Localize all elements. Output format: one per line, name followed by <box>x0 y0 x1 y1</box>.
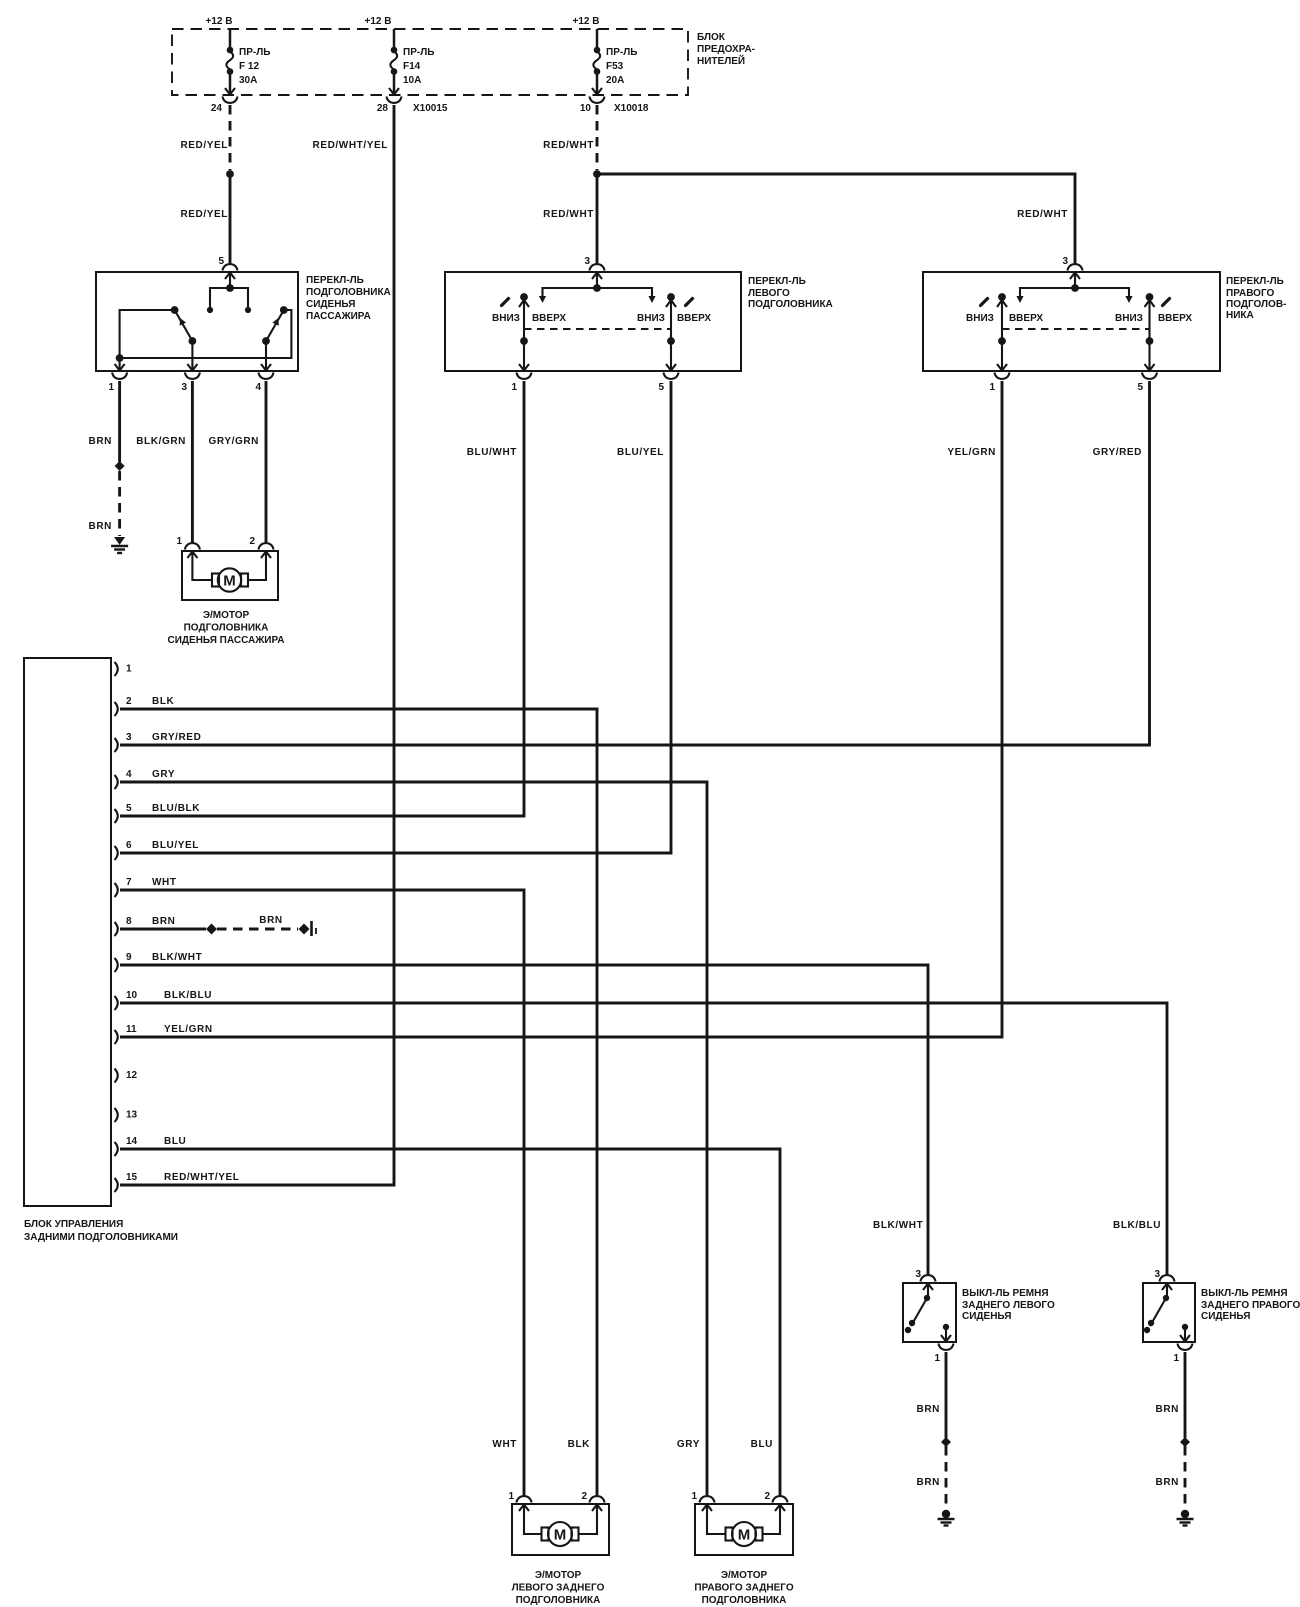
svg-text:ВНИЗ: ВНИЗ <box>966 313 994 324</box>
pin 1 of M1 <box>176 536 199 558</box>
svg-text:BLU/BLK: BLU/BLK <box>152 803 200 814</box>
svg-text:20A: 20A <box>606 75 624 86</box>
switch lever right of S1 <box>262 306 288 345</box>
svg-text:ЗАДНИМИ ПОДГОЛОВНИКАМИ: ЗАДНИМИ ПОДГОЛОВНИКАМИ <box>24 1232 178 1243</box>
svg-text:BLU: BLU <box>751 1439 773 1450</box>
svg-text:ПЕРЕКЛ-ЛЬ: ПЕРЕКЛ-ЛЬ <box>306 275 364 286</box>
svg-text:СИДЕНЬЯ ПАССАЖИРА: СИДЕНЬЯ ПАССАЖИРА <box>167 635 284 646</box>
svg-text:СИДЕНЬЯ: СИДЕНЬЯ <box>306 299 355 310</box>
wire WHT pin 7 to left rear motor pin 1 <box>120 890 524 1496</box>
svg-text:F53: F53 <box>606 61 624 72</box>
svg-text:X10015: X10015 <box>413 103 448 114</box>
svg-text:ПРАВОГО: ПРАВОГО <box>1226 288 1274 299</box>
svg-text:10: 10 <box>126 990 138 1001</box>
svg-text:ПАССАЖИРА: ПАССАЖИРА <box>306 311 371 322</box>
svg-text:30A: 30A <box>239 75 257 86</box>
pin 8 of control unit <box>115 916 176 936</box>
wire RED/YEL dashed from connector 24 <box>180 105 230 170</box>
contact ВНИЗ left of S3 <box>966 299 994 325</box>
svg-text:ЛЕВОГО: ЛЕВОГО <box>748 288 790 299</box>
switch pole right of S3 <box>1145 293 1155 371</box>
splice on right BRN <box>1180 1437 1190 1447</box>
svg-text:8: 8 <box>126 916 132 927</box>
fuse box БЛОК ПРЕДОХРАНИТЕЛЕЙ <box>172 29 755 95</box>
fixed contact to pin 1 of SW-R <box>1182 1324 1188 1340</box>
svg-text:GRY/RED: GRY/RED <box>1093 447 1142 458</box>
connector 10 X10018 <box>580 103 649 114</box>
pin 3 of S3 <box>1062 256 1082 279</box>
svg-text:RED/WHT/YEL: RED/WHT/YEL <box>164 1172 240 1183</box>
wire S2 feed split <box>539 274 656 303</box>
wire RED/WHT dashed from connector 10 <box>543 105 597 170</box>
wire BRN dashed to ground left <box>917 1446 946 1509</box>
splice on BRN wire <box>115 461 125 471</box>
svg-text:1: 1 <box>1173 1353 1179 1364</box>
splice junction on RED/YEL <box>226 170 234 178</box>
svg-text:ПОДГОЛОВ-: ПОДГОЛОВ- <box>1226 299 1286 310</box>
wire WHT label at left rear motor <box>492 1439 517 1450</box>
svg-text:ВВЕРХ: ВВЕРХ <box>677 313 711 324</box>
svg-text:Э/МОТОР: Э/МОТОР <box>721 1570 768 1581</box>
motor M1 Э/МОТОР ПОДГОЛОВНИКА СИДЕНЬЯ ПАССАЖИРА <box>167 551 284 646</box>
svg-text:BRN: BRN <box>1156 1404 1179 1415</box>
pin 4 of control unit <box>115 769 176 789</box>
pin 1 of S2 <box>511 364 531 393</box>
svg-text:3: 3 <box>126 732 132 743</box>
pin 5 of S3 <box>1137 364 1157 393</box>
svg-text:НИТЕЛЕЙ: НИТЕЛЕЙ <box>697 54 745 67</box>
motor M2 Э/МОТОР ЛЕВОГО ЗАДНЕГО ПОДГОЛОВНИКА <box>512 1504 609 1606</box>
svg-text:BLU/YEL: BLU/YEL <box>617 447 664 458</box>
svg-text:2: 2 <box>126 696 132 707</box>
pin 1 of SW-R <box>1173 1335 1192 1364</box>
motor symbol M2 <box>542 1522 579 1546</box>
svg-text:WHT: WHT <box>152 877 177 888</box>
svg-text:11: 11 <box>126 1024 137 1035</box>
wire BLK pin 2 to left rear motor pin 2 <box>120 709 597 1496</box>
wire GRY/RED from S3 pin 5 to control block pin 3 <box>120 381 1150 745</box>
net +12V feed 1 <box>206 16 233 27</box>
fuse F53 20A <box>590 29 638 103</box>
net +12V feed 3 <box>573 16 600 27</box>
svg-text:6: 6 <box>126 840 132 851</box>
contact ВНИЗ right of S2 <box>637 313 665 324</box>
svg-text:ВВЕРХ: ВВЕРХ <box>1009 313 1043 324</box>
svg-text:ВЫКЛ-ЛЬ РЕМНЯ: ВЫКЛ-ЛЬ РЕМНЯ <box>962 1288 1049 1299</box>
svg-text:GRY/RED: GRY/RED <box>152 732 201 743</box>
contact ВВЕРХ left of S2 <box>532 313 566 324</box>
pin 7 of control unit <box>115 877 177 897</box>
svg-text:GRY/GRN: GRY/GRN <box>209 436 260 447</box>
svg-text:10A: 10A <box>403 75 421 86</box>
wire BRN from S1 pin 1 <box>89 381 120 462</box>
wire RED/WHT branch to right headrest switch pin 3 <box>597 174 1075 264</box>
svg-text:3: 3 <box>584 256 590 267</box>
wire BRN dashed to body ground splice <box>217 915 298 929</box>
mechanical link of S3 <box>1002 328 1150 330</box>
svg-text:+12 В: +12 В <box>573 16 600 27</box>
svg-text:YEL/GRN: YEL/GRN <box>947 447 996 458</box>
pin 2 of M1 <box>249 536 273 558</box>
wire S1 internal to pin 1 <box>116 310 175 371</box>
connector 28 X10015 <box>377 103 448 114</box>
svg-text:2: 2 <box>249 536 255 547</box>
svg-text:BLU: BLU <box>164 1136 186 1147</box>
switch lever of SW-L <box>905 1285 930 1333</box>
pin 6 of control unit <box>115 840 199 860</box>
pin 3 of control unit <box>115 732 202 752</box>
svg-text:5: 5 <box>218 256 224 267</box>
svg-text:ПРАВОГО ЗАДНЕГО: ПРАВОГО ЗАДНЕГО <box>694 1583 793 1594</box>
svg-text:24: 24 <box>211 103 223 114</box>
net +12V feed 2 <box>365 16 392 27</box>
svg-text:ПЕРЕКЛ-ЛЬ: ПЕРЕКЛ-ЛЬ <box>748 276 806 287</box>
svg-text:15: 15 <box>126 1172 138 1183</box>
svg-text:BRN: BRN <box>89 436 112 447</box>
svg-text:YEL/GRN: YEL/GRN <box>164 1024 213 1035</box>
svg-text:BLU/YEL: BLU/YEL <box>152 840 199 851</box>
svg-text:1: 1 <box>934 1353 940 1364</box>
svg-text:BLK: BLK <box>568 1439 591 1450</box>
pin 14 of control unit <box>115 1136 187 1156</box>
svg-text:ЛЕВОГО ЗАДНЕГО: ЛЕВОГО ЗАДНЕГО <box>512 1583 605 1594</box>
svg-text:ВНИЗ: ВНИЗ <box>492 313 520 324</box>
motor symbol M3 <box>726 1522 763 1546</box>
wire RED/WHT/YEL from connector 28 down to control block pin 15 <box>120 105 394 1185</box>
svg-text:BLK/WHT: BLK/WHT <box>152 952 202 963</box>
svg-text:ВНИЗ: ВНИЗ <box>1115 313 1143 324</box>
wire BRN pin 8 <box>120 928 206 931</box>
wire S1 lever outputs to pins 3 and 4 <box>192 341 266 371</box>
pin 2 of control unit <box>115 696 175 716</box>
svg-text:3: 3 <box>1062 256 1068 267</box>
svg-text:RED/WHT: RED/WHT <box>543 209 594 220</box>
wire GRY label at right rear motor <box>677 1439 700 1450</box>
pin 10 of control unit <box>115 990 213 1010</box>
pin 3 of S2 <box>584 256 604 279</box>
contact ВВЕРХ left of S3 <box>1009 313 1043 324</box>
svg-text:WHT: WHT <box>492 1439 517 1450</box>
svg-text:БЛОК УПРАВЛЕНИЯ: БЛОК УПРАВЛЕНИЯ <box>24 1219 123 1230</box>
wire BLK/BLU label at right belt switch <box>1113 1220 1161 1231</box>
svg-text:BRN: BRN <box>89 521 112 532</box>
svg-text:5: 5 <box>126 803 132 814</box>
svg-text:БЛОК: БЛОК <box>697 32 726 43</box>
ground splice terminal of pin 8 wire <box>299 921 317 936</box>
fuse F14 10A <box>387 29 435 103</box>
switch pole right of S2 <box>666 293 676 371</box>
svg-text:BRN: BRN <box>917 1477 940 1488</box>
fuse F12 30A <box>223 29 271 103</box>
wire S1 internal right contact to pin 1 <box>120 310 292 358</box>
svg-text:ПОДГОЛОВНИКА: ПОДГОЛОВНИКА <box>516 1595 601 1606</box>
svg-text:ПР-ЛЬ: ПР-ЛЬ <box>606 47 637 58</box>
svg-text:BLK/GRN: BLK/GRN <box>136 436 186 447</box>
svg-text:ПРЕДОХРА-: ПРЕДОХРА- <box>697 44 755 55</box>
wire RED/WHT to left headrest switch pin 3 <box>543 174 597 264</box>
pin 5 of control unit <box>115 803 201 823</box>
svg-text:RED/YEL: RED/YEL <box>180 209 228 220</box>
svg-text:M: M <box>554 1526 567 1543</box>
svg-text:M: M <box>738 1526 751 1543</box>
wire M3 internal <box>707 1506 780 1534</box>
svg-text:RED/WHT/YEL: RED/WHT/YEL <box>313 140 389 151</box>
pin 1 of S3 <box>989 364 1009 393</box>
contact ВНИЗ right of S3 <box>1115 313 1143 324</box>
wire BLU label at right rear motor <box>751 1439 773 1450</box>
wire S1 common feed split <box>207 274 251 313</box>
svg-text:Э/МОТОР: Э/МОТОР <box>535 1570 582 1581</box>
pin 2 of M3 <box>764 1491 787 1511</box>
svg-text:ПЕРЕКЛ-ЛЬ: ПЕРЕКЛ-ЛЬ <box>1226 276 1284 287</box>
svg-text:1: 1 <box>126 664 132 675</box>
splice junction on RED/WHT <box>593 170 601 178</box>
wire BLU/WHT from S2 pin 1 to control block pin 5 <box>120 381 524 816</box>
svg-text:2: 2 <box>764 1491 770 1502</box>
switch S1 ПЕРЕКЛ-ЛЬ ПОДГОЛОВНИКА СИДЕНЬЯ ПАССАЖИРА <box>96 272 391 371</box>
svg-text:5: 5 <box>658 382 664 393</box>
switch S3 ПЕРЕКЛ-ЛЬ ПРАВОГО ПОДГОЛОВНИКА <box>923 272 1286 371</box>
pin 4 of S1 <box>255 364 273 393</box>
wire BLU pin 14 to right rear motor pin 2 <box>120 1149 780 1496</box>
svg-text:GRY: GRY <box>677 1439 700 1450</box>
wire BRN from SW-R pin 1 <box>1156 1352 1185 1438</box>
svg-text:F 12: F 12 <box>239 61 259 72</box>
svg-text:4: 4 <box>126 769 132 780</box>
svg-text:ПОДГОЛОВНИКА: ПОДГОЛОВНИКА <box>184 623 269 634</box>
wire BRN dashed to ground <box>89 471 120 536</box>
wire BLU/YEL from S2 pin 5 to control block pin 6 <box>120 381 671 853</box>
svg-text:ВЫКЛ-ЛЬ РЕМНЯ: ВЫКЛ-ЛЬ РЕМНЯ <box>1201 1288 1288 1299</box>
svg-text:BLK/BLU: BLK/BLU <box>164 990 212 1001</box>
pin 3 of SW-R <box>1154 1269 1174 1290</box>
svg-text:1: 1 <box>108 382 114 393</box>
svg-text:3: 3 <box>181 382 187 393</box>
svg-text:28: 28 <box>377 103 389 114</box>
pin 15 of control unit <box>115 1172 240 1192</box>
wire GRY/GRN from S1 pin 4 to motor pin 2 <box>209 381 267 543</box>
ground G3 <box>1177 1510 1194 1526</box>
connector 24 <box>211 103 223 114</box>
svg-text:RED/YEL: RED/YEL <box>180 140 228 151</box>
svg-text:10: 10 <box>580 103 592 114</box>
svg-text:СИДЕНЬЯ: СИДЕНЬЯ <box>1201 1311 1250 1322</box>
motor symbol M1 <box>212 568 248 591</box>
svg-text:2: 2 <box>581 1491 587 1502</box>
svg-text:14: 14 <box>126 1136 138 1147</box>
ground G2 <box>938 1510 955 1526</box>
svg-text:ПР-ЛЬ: ПР-ЛЬ <box>239 47 270 58</box>
svg-text:ВНИЗ: ВНИЗ <box>637 313 665 324</box>
pin 3 of SW-L <box>915 1269 935 1290</box>
splice on left BRN <box>941 1437 951 1447</box>
svg-text:BRN: BRN <box>917 1404 940 1415</box>
svg-text:СИДЕНЬЯ: СИДЕНЬЯ <box>962 1311 1011 1322</box>
svg-text:НИКА: НИКА <box>1226 310 1254 321</box>
svg-text:F14: F14 <box>403 61 421 72</box>
svg-text:12: 12 <box>126 1070 138 1081</box>
wire BRN from SW-L pin 1 <box>917 1352 946 1438</box>
svg-text:ПОДГОЛОВНИКА: ПОДГОЛОВНИКА <box>702 1595 787 1606</box>
svg-text:ПОДГОЛОВНИКА: ПОДГОЛОВНИКА <box>748 299 833 310</box>
control unit БЛОК УПРАВЛЕНИЯ ЗАДНИМИ ПОДГОЛОВНИКАМИ <box>24 658 178 1243</box>
pin 5 of S2 <box>658 364 678 393</box>
pin 1 of SW-L <box>934 1335 953 1364</box>
wire BLK/WHT label at left belt switch <box>873 1220 923 1231</box>
svg-text:RED/WHT: RED/WHT <box>543 140 594 151</box>
wire BLK/GRN from S1 pin 3 to motor pin 1 <box>136 381 192 543</box>
svg-text:1: 1 <box>511 382 517 393</box>
switch pole left of S2 <box>519 293 529 371</box>
wire BLK label at left rear motor <box>568 1439 591 1450</box>
svg-text:BRN: BRN <box>259 915 282 926</box>
wire M2 internal <box>524 1506 597 1534</box>
switch S2 ПЕРЕКЛ-ЛЬ ЛЕВОГО ПОДГОЛОВНИКА <box>445 272 833 371</box>
pin 2 of M2 <box>581 1491 604 1511</box>
svg-text:BLU/WHT: BLU/WHT <box>467 447 517 458</box>
mechanical link of S2 <box>524 328 671 330</box>
svg-text:BRN: BRN <box>1156 1477 1179 1488</box>
wire M1 internal <box>192 553 266 580</box>
svg-text:ПОДГОЛОВНИКА: ПОДГОЛОВНИКА <box>306 287 391 298</box>
svg-text:ВВЕРХ: ВВЕРХ <box>1158 313 1192 324</box>
wire GRY pin 4 to right rear motor pin 1 <box>120 782 707 1496</box>
fixed contact to pin 1 of SW-L <box>943 1324 949 1340</box>
svg-text:9: 9 <box>126 952 132 963</box>
svg-text:4: 4 <box>255 382 261 393</box>
svg-text:+12 В: +12 В <box>365 16 392 27</box>
svg-text:13: 13 <box>126 1110 138 1121</box>
contact ВВЕРХ right of S3 <box>1158 299 1192 325</box>
switch lever left of S1 <box>171 306 197 345</box>
svg-text:BLK: BLK <box>152 696 175 707</box>
svg-text:1: 1 <box>508 1491 514 1502</box>
svg-text:1: 1 <box>691 1491 697 1502</box>
wire S3 feed split <box>1016 274 1132 303</box>
switch lever of SW-R <box>1144 1285 1169 1333</box>
wire BLK/WHT pin 9 to left belt switch pin 3 <box>120 965 928 1275</box>
svg-text:BRN: BRN <box>152 916 175 927</box>
svg-text:1: 1 <box>989 382 995 393</box>
svg-text:X10018: X10018 <box>614 103 649 114</box>
wire RED/YEL to switch pin 5 <box>180 174 230 264</box>
svg-text:RED/WHT: RED/WHT <box>1017 209 1068 220</box>
pin 1 of control unit <box>115 662 133 676</box>
svg-text:BLK/WHT: BLK/WHT <box>873 1220 923 1231</box>
pin 5 of S1 <box>218 256 237 279</box>
pin 1 of M2 <box>508 1491 531 1511</box>
svg-text:M: M <box>223 572 236 589</box>
svg-text:GRY: GRY <box>152 769 175 780</box>
ground G1 <box>111 537 128 553</box>
contact ВВЕРХ right of S2 <box>677 299 711 325</box>
svg-text:5: 5 <box>1137 382 1143 393</box>
pin 3 of S1 <box>181 364 199 393</box>
pin 1 of M3 <box>691 1491 714 1511</box>
svg-text:BLK/BLU: BLK/BLU <box>1113 1220 1161 1231</box>
svg-text:ПР-ЛЬ: ПР-ЛЬ <box>403 47 434 58</box>
svg-text:+12 В: +12 В <box>206 16 233 27</box>
pin 12 of control unit <box>115 1069 138 1083</box>
motor M3 Э/МОТОР ПРАВОГО ЗАДНЕГО ПОДГОЛОВНИКА <box>694 1504 793 1606</box>
wire YEL/GRN from S3 pin 1 to control block pin 11 <box>120 381 1002 1037</box>
svg-text:ВВЕРХ: ВВЕРХ <box>532 313 566 324</box>
pin 13 of control unit <box>115 1108 138 1122</box>
contact ВНИЗ left of S2 <box>492 299 520 325</box>
svg-text:ЗАДНЕГО ЛЕВОГО: ЗАДНЕГО ЛЕВОГО <box>962 1300 1055 1311</box>
belt switch SW-L ВЫКЛ-ЛЬ РЕМНЯ ЗАДНЕГО ЛЕВОГО СИДЕНЬЯ <box>903 1283 1055 1342</box>
svg-text:ЗАДНЕГО ПРАВОГО: ЗАДНЕГО ПРАВОГО <box>1201 1300 1300 1311</box>
svg-text:7: 7 <box>126 877 132 888</box>
pin 1 of S1 <box>108 364 127 393</box>
svg-text:1: 1 <box>176 536 182 547</box>
svg-text:Э/МОТОР: Э/МОТОР <box>203 610 250 621</box>
wire BRN dashed to ground right <box>1156 1446 1185 1509</box>
belt switch SW-R ВЫКЛ-ЛЬ РЕМНЯ ЗАДНЕГО ПРАВОГО СИДЕНЬЯ <box>1143 1283 1300 1342</box>
switch pole left of S3 <box>997 293 1007 371</box>
pin 9 of control unit <box>115 952 203 972</box>
wire BLK/BLU pin 10 to right belt switch pin 3 <box>120 1003 1167 1275</box>
pin 11 of control unit <box>115 1024 213 1044</box>
splice on BRN pin 8 wire <box>206 924 217 935</box>
